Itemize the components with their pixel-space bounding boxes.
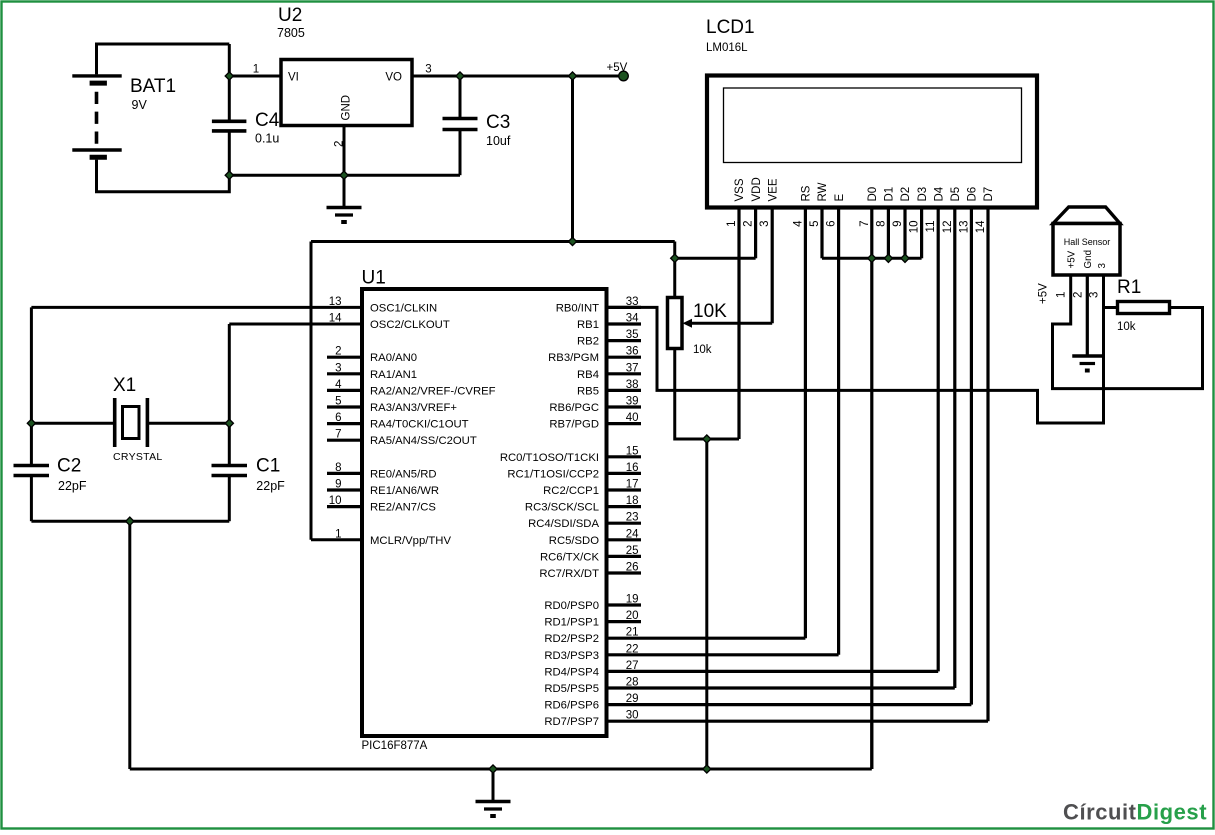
svg-text:OSC1/CLKIN: OSC1/CLKIN — [370, 302, 437, 314]
svg-text:10k: 10k — [1117, 321, 1136, 333]
svg-text:9V: 9V — [132, 98, 148, 112]
svg-text:D3: D3 — [917, 187, 929, 202]
svg-text:RE0/AN5/RD: RE0/AN5/RD — [370, 468, 437, 480]
svg-text:VO: VO — [385, 72, 402, 84]
svg-text:2: 2 — [335, 346, 341, 358]
svg-text:+5V: +5V — [1038, 283, 1050, 304]
svg-text:22pF: 22pF — [58, 479, 87, 493]
svg-text:3: 3 — [1089, 292, 1101, 298]
svg-text:10: 10 — [329, 495, 342, 507]
svg-text:RC1/T1OSI/CCP2: RC1/T1OSI/CCP2 — [507, 468, 599, 480]
svg-text:8: 8 — [875, 221, 887, 227]
svg-text:2: 2 — [743, 221, 755, 227]
svg-text:RC6/TX/CK: RC6/TX/CK — [540, 551, 599, 563]
svg-text:1: 1 — [726, 221, 738, 227]
svg-text:37: 37 — [626, 362, 639, 374]
svg-text:C3: C3 — [486, 112, 510, 133]
svg-text:7805: 7805 — [277, 26, 305, 40]
svg-text:+5V: +5V — [607, 62, 628, 74]
svg-text:6: 6 — [826, 221, 838, 227]
svg-text:9: 9 — [892, 221, 904, 227]
svg-text:13: 13 — [329, 296, 342, 308]
svg-text:1: 1 — [253, 64, 259, 76]
svg-text:RC3/SCK/SCL: RC3/SCK/SCL — [525, 502, 599, 514]
svg-text:4: 4 — [335, 379, 342, 391]
svg-text:RE1/AN6/WR: RE1/AN6/WR — [370, 485, 439, 497]
svg-text:RD2/PSP2: RD2/PSP2 — [544, 633, 599, 645]
svg-text:RA1/AN1: RA1/AN1 — [370, 369, 417, 381]
svg-text:CírcuitDigest: CírcuitDigest — [1063, 800, 1207, 825]
svg-text:29: 29 — [626, 693, 639, 705]
svg-text:35: 35 — [626, 329, 639, 341]
svg-text:30: 30 — [626, 710, 639, 722]
svg-text:14: 14 — [329, 313, 342, 325]
svg-text:9: 9 — [335, 479, 341, 491]
svg-text:RB0/INT: RB0/INT — [556, 302, 599, 314]
svg-text:2: 2 — [1072, 292, 1084, 298]
svg-text:RD1/PSP1: RD1/PSP1 — [544, 617, 599, 629]
svg-text:28: 28 — [626, 677, 639, 689]
svg-text:RB4: RB4 — [577, 369, 599, 381]
svg-text:U2: U2 — [278, 5, 302, 26]
svg-text:39: 39 — [626, 396, 639, 408]
svg-text:19: 19 — [626, 594, 639, 606]
svg-text:3: 3 — [759, 221, 771, 227]
svg-text:+5V: +5V — [1066, 250, 1077, 268]
svg-text:7: 7 — [335, 429, 341, 441]
svg-text:3: 3 — [1097, 263, 1108, 269]
svg-text:RA2/AN2/VREF-/CVREF: RA2/AN2/VREF-/CVREF — [370, 385, 496, 397]
svg-text:38: 38 — [626, 379, 639, 391]
svg-text:40: 40 — [626, 412, 639, 424]
svg-text:25: 25 — [626, 545, 639, 557]
svg-text:10K: 10K — [693, 301, 727, 322]
svg-text:RA5/AN4/SS/C2OUT: RA5/AN4/SS/C2OUT — [370, 435, 477, 447]
svg-text:LM016L: LM016L — [706, 42, 748, 54]
svg-text:15: 15 — [626, 445, 639, 457]
svg-text:0.1u: 0.1u — [255, 132, 279, 146]
svg-text:RD6/PSP6: RD6/PSP6 — [544, 700, 599, 712]
svg-text:C1: C1 — [256, 456, 280, 477]
svg-text:24: 24 — [626, 528, 639, 540]
svg-text:5: 5 — [809, 221, 821, 227]
svg-text:RA3/AN3/VREF+: RA3/AN3/VREF+ — [370, 402, 457, 414]
svg-text:D0: D0 — [867, 187, 879, 202]
svg-text:1: 1 — [335, 528, 341, 540]
svg-text:BAT1: BAT1 — [130, 76, 176, 97]
svg-text:RA4/T0CKI/C1OUT: RA4/T0CKI/C1OUT — [370, 419, 469, 431]
svg-text:RB6/PGC: RB6/PGC — [549, 402, 599, 414]
svg-text:D5: D5 — [950, 187, 962, 202]
svg-text:5: 5 — [335, 396, 341, 408]
svg-text:18: 18 — [626, 495, 639, 507]
svg-text:RE2/AN7/CS: RE2/AN7/CS — [370, 502, 436, 514]
svg-text:U1: U1 — [362, 268, 386, 289]
svg-text:12: 12 — [942, 221, 954, 234]
svg-text:C2: C2 — [57, 456, 81, 477]
svg-text:RA0/AN0: RA0/AN0 — [370, 352, 417, 364]
svg-text:RD4/PSP4: RD4/PSP4 — [544, 666, 599, 678]
svg-text:LCD1: LCD1 — [706, 17, 755, 38]
svg-text:C4: C4 — [255, 110, 280, 131]
svg-text:GND: GND — [340, 95, 352, 121]
svg-text:RC4/SDI/SDA: RC4/SDI/SDA — [528, 518, 599, 530]
svg-text:10: 10 — [909, 221, 921, 234]
svg-text:RD5/PSP5: RD5/PSP5 — [544, 683, 599, 695]
svg-text:4: 4 — [792, 220, 804, 227]
svg-text:RD7/PSP7: RD7/PSP7 — [544, 716, 599, 728]
svg-text:X1: X1 — [113, 375, 136, 396]
svg-text:11: 11 — [925, 221, 937, 233]
svg-text:Gnd: Gnd — [1083, 250, 1094, 269]
svg-text:17: 17 — [626, 479, 639, 491]
svg-text:22pF: 22pF — [256, 479, 285, 493]
svg-text:34: 34 — [626, 313, 639, 325]
svg-text:1: 1 — [1056, 292, 1068, 298]
svg-text:3: 3 — [335, 362, 341, 374]
svg-text:VI: VI — [288, 72, 299, 84]
svg-text:26: 26 — [626, 562, 639, 574]
svg-text:36: 36 — [626, 346, 639, 358]
svg-text:22: 22 — [626, 643, 639, 655]
svg-text:6: 6 — [335, 412, 341, 424]
svg-text:RC0/T1OSO/T1CKI: RC0/T1OSO/T1CKI — [500, 452, 599, 464]
svg-text:RW: RW — [817, 182, 829, 201]
svg-text:VDD: VDD — [751, 177, 763, 201]
svg-text:OSC2/CLKOUT: OSC2/CLKOUT — [370, 319, 450, 331]
svg-text:7: 7 — [859, 221, 871, 227]
svg-text:10k: 10k — [693, 344, 712, 356]
svg-text:D6: D6 — [967, 187, 979, 202]
svg-text:RS: RS — [801, 185, 813, 201]
svg-text:16: 16 — [626, 462, 639, 474]
svg-text:14: 14 — [975, 220, 987, 233]
svg-text:23: 23 — [626, 512, 639, 524]
svg-text:Hall Sensor: Hall Sensor — [1064, 237, 1111, 247]
svg-text:20: 20 — [626, 610, 639, 622]
svg-text:VEE: VEE — [767, 178, 779, 201]
svg-text:RB2: RB2 — [577, 336, 599, 348]
svg-text:D2: D2 — [900, 187, 912, 202]
svg-text:D4: D4 — [933, 186, 945, 201]
svg-text:VSS: VSS — [734, 178, 746, 201]
svg-text:RB5: RB5 — [577, 385, 599, 397]
svg-text:RD3/PSP3: RD3/PSP3 — [544, 650, 599, 662]
svg-text:RB1: RB1 — [577, 319, 599, 331]
svg-text:8: 8 — [335, 462, 341, 474]
svg-text:D1: D1 — [884, 187, 896, 202]
svg-text:RB3/PGM: RB3/PGM — [548, 352, 599, 364]
svg-text:CRYSTAL: CRYSTAL — [113, 451, 163, 463]
svg-text:E: E — [834, 194, 846, 202]
svg-text:13: 13 — [958, 221, 970, 234]
svg-text:2: 2 — [334, 141, 346, 147]
svg-text:D7: D7 — [983, 187, 995, 202]
svg-text:R1: R1 — [1117, 277, 1141, 298]
svg-text:RB7/PGD: RB7/PGD — [549, 419, 599, 431]
svg-text:RC5/SDO: RC5/SDO — [549, 535, 599, 547]
svg-text:RC2/CCP1: RC2/CCP1 — [543, 485, 599, 497]
svg-text:21: 21 — [626, 627, 639, 639]
svg-text:27: 27 — [626, 660, 639, 672]
svg-text:PIC16F877A: PIC16F877A — [362, 740, 428, 752]
svg-text:3: 3 — [425, 64, 431, 76]
svg-text:10uf: 10uf — [486, 134, 511, 148]
svg-text:MCLR/Vpp/THV: MCLR/Vpp/THV — [370, 535, 451, 547]
svg-text:RC7/RX/DT: RC7/RX/DT — [539, 568, 599, 580]
svg-text:RD0/PSP0: RD0/PSP0 — [544, 600, 599, 612]
